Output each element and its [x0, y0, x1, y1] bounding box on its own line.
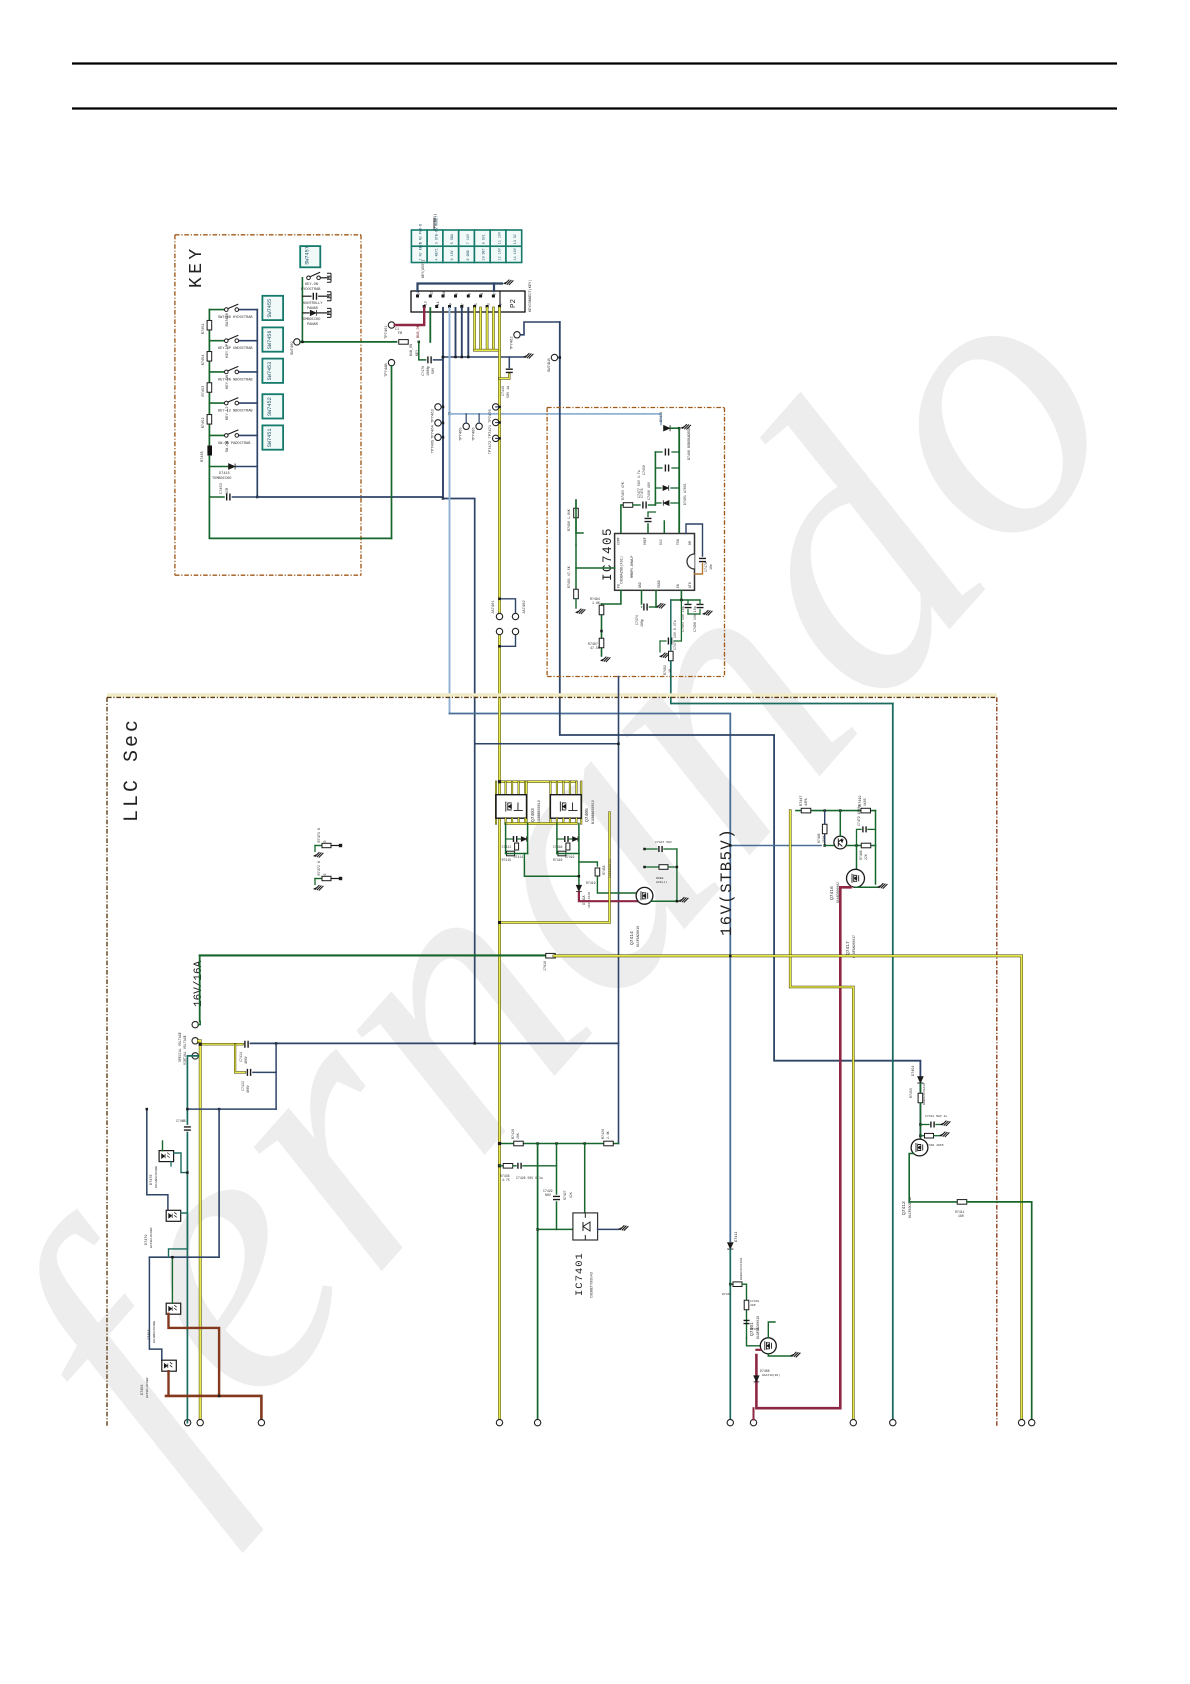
- svg-text:VCC: VCC: [659, 539, 663, 545]
- svg-text:R7446: R7446: [817, 833, 821, 843]
- svg-text:NHV: NHV: [545, 1193, 551, 1197]
- svg-text:0: 0: [323, 841, 327, 843]
- wire switch row 4 left: [209, 402, 224, 404]
- svg-text:BCTBCLDCOBR: BCTBCLDCOBR: [145, 1377, 149, 1398]
- capacitor C7448: [565, 836, 568, 842]
- svg-text:Q7403: Q7403: [530, 808, 536, 822]
- wire yellow gate bus Q7403/Q7405: [500, 781, 577, 783]
- resistor R7484 1.8K: [599, 605, 604, 615]
- resistor R7467 820: [659, 865, 668, 870]
- wire yellow bottom bus: [506, 822, 577, 824]
- svg-text:R7481 47.5K: R7481 47.5K: [567, 566, 571, 588]
- wire green branch R7436: [499, 1165, 501, 1167]
- svg-text:1 NC PWR-D: 1 NC PWR-D: [420, 224, 424, 244]
- capacitor C7476 1000p: [428, 356, 431, 363]
- resistor R7466 100: [918, 1093, 923, 1103]
- capacitor C7441 NHV 1u: [931, 1122, 934, 1128]
- capacitor C7424 400V: [245, 1041, 248, 1048]
- terminal TP7462: [514, 332, 520, 338]
- wire navy T from KEY net: [475, 743, 619, 745]
- svg-text:D7481 A7061: D7481 A7061: [683, 483, 687, 505]
- svg-text:R7448: R7448: [859, 850, 863, 860]
- svg-text:11 16V: 11 16V: [498, 231, 502, 244]
- wire diode row right: [236, 466, 257, 468]
- svg-text:40P: 40P: [750, 1303, 756, 1307]
- wire yellow FET bottom x=518.6: [518, 818, 520, 823]
- wire yellow bus: [475, 349, 500, 352]
- wire teal opto1 loop: [170, 1162, 172, 1167]
- svg-text:8: 8: [455, 293, 459, 295]
- svg-text:C7468 48V: C7468 48V: [647, 482, 651, 500]
- wire navy below rail to opto4: [149, 1257, 161, 1360]
- svg-text:2 NC KEY0: 2 NC KEY0: [420, 242, 424, 260]
- terminal JA7402 b: [512, 628, 518, 634]
- svg-text:B0BCC9C9C9CA: B0BCC9C9C9CA: [739, 1258, 743, 1280]
- svg-text:5: 5: [474, 303, 478, 305]
- wire green EN pin stub: [680, 590, 682, 600]
- snubber cluster C7448: [556, 824, 558, 854]
- capacitor C7431 NHV: [744, 1320, 750, 1323]
- svg-text:PANAR: PANAR: [307, 307, 319, 311]
- wire navy opto rail: [149, 1256, 219, 1258]
- terminal TB7462: [192, 1038, 198, 1044]
- svg-text:180: 180: [958, 1214, 964, 1218]
- resistor R7454: [207, 352, 212, 362]
- capacitor C7453 SCR 0.1u: [227, 494, 230, 501]
- svg-text:10 DET: 10 DET: [483, 248, 487, 260]
- svg-text:JA7402: JA7402: [523, 600, 527, 614]
- ground at P2 shield: [504, 280, 514, 285]
- wire yellow FET bottom x=556.9: [556, 818, 558, 823]
- wire green C7441 branch: [920, 1124, 929, 1126]
- svg-text:1.8K: 1.8K: [592, 601, 600, 605]
- svg-text:R7419: R7419: [586, 881, 596, 885]
- wire navy R7446 branch: [824, 811, 826, 846]
- svg-text:R7482: R7482: [663, 665, 667, 675]
- wire green 16V rail corner down: [199, 955, 201, 1021]
- switch box SW7451: [262, 425, 283, 449]
- wire navy TCN loop: [686, 524, 703, 556]
- resistor mid R7415: [515, 843, 519, 850]
- wire green sense rail: [500, 1143, 619, 1145]
- photocoupler D7407: [166, 1303, 181, 1314]
- wire green Q7417 drain bottom: [856, 886, 879, 888]
- wire brown opto3 out: [169, 1314, 220, 1396]
- wire cap row KONTROLLY: [302, 295, 311, 297]
- terminal olive bottom: [850, 1419, 856, 1425]
- svg-text:6: 6: [468, 293, 472, 295]
- svg-text:Q7412: Q7412: [901, 1201, 907, 1215]
- wire yellow step to C7422: [235, 1044, 245, 1072]
- wire green R7463 branch: [730, 1283, 732, 1285]
- wire yellow P2 pin drop x=487.1: [486, 308, 489, 350]
- wire yellow main vertical (KEY line): [498, 308, 501, 617]
- svg-text:13: 13: [423, 301, 427, 305]
- wire green pin COMP bottom loop: [576, 518, 583, 533]
- svg-text:R7466: R7466: [909, 1088, 913, 1098]
- capacitor C7429 NHV 0.22u: [553, 1196, 560, 1199]
- wire green SGND stub: [655, 590, 657, 607]
- svg-text:R7415: R7415: [502, 858, 512, 862]
- svg-text:5 SDA: 5 SDA: [451, 233, 455, 244]
- wire navy TP7462 hook: [520, 322, 560, 335]
- resistor FB7401 (jumper): [399, 340, 409, 345]
- diode D7408 0AA719(90): [754, 1376, 760, 1382]
- svg-text:D7454: D7454: [912, 1065, 916, 1076]
- svg-text:TP7465: TP7465: [460, 427, 464, 441]
- svg-text:C7426 50V 0.1u: C7426 50V 0.1u: [516, 1176, 543, 1180]
- wire navy KEY net to LLC corner: [443, 499, 475, 1043]
- transistor Q7414: [636, 887, 653, 904]
- svg-text:TP74AB: TP74AB: [385, 363, 389, 377]
- svg-text:KEY: KEY: [187, 245, 207, 288]
- wire cap row to navy bus: [233, 496, 258, 498]
- ground R7465: [940, 1132, 950, 1137]
- connector comb 3: [327, 308, 331, 317]
- terminal TP7465: [435, 434, 441, 440]
- svg-text:TOMBOCCKO: TOMBOCCKO: [301, 318, 320, 322]
- wire navy long P2 pin11 drop to KEY net: [442, 308, 444, 499]
- terminal TP7464: [435, 420, 441, 426]
- svg-text:16V(STB5V): 16V(STB5V): [718, 828, 736, 936]
- LLC Sec section dashed box: [107, 696, 997, 698]
- svg-text:SW7460 HYDOCTRAB: SW7460 HYDOCTRAB: [218, 316, 253, 320]
- terminal brown bottom: [258, 1419, 264, 1425]
- svg-text:B1GFBAD00019: B1GFBAD00019: [756, 1316, 760, 1339]
- svg-text:C0DBAZ8D(X91): C0DBAZ8D(X91): [620, 556, 625, 584]
- svg-text:VIRTUAL VOLTAGE: VIRTUAL VOLTAGE: [183, 1035, 187, 1065]
- svg-text:J7616: J7616: [544, 961, 548, 971]
- wire green opto1 top stub: [162, 1141, 164, 1151]
- wire snubber bottom: [506, 853, 528, 855]
- wire green key main output: [300, 341, 396, 343]
- capacitor C7479 1000p 50V: [863, 826, 866, 832]
- diode D7415 TOMBOCCKO: [229, 463, 235, 469]
- wire teal long to right: [671, 661, 893, 704]
- wire yellow drop to FET pin x=569.9: [569, 782, 571, 795]
- svg-text:400V: 400V: [246, 1085, 250, 1093]
- wire navy shield stub: [493, 284, 495, 292]
- svg-text:C7441 NHV 1u: C7441 NHV 1u: [925, 1114, 947, 1118]
- svg-text:2.4K: 2.4K: [606, 1131, 610, 1139]
- switch KEY-ON HYDOCTRAB: [307, 272, 321, 279]
- resistor R7464 40K5: [744, 1300, 749, 1310]
- wire green cluster2 drop: [578, 854, 580, 885]
- svg-text:22K: 22K: [864, 854, 868, 860]
- svg-text:BCTBCLDCOBR: BCTBCLDCOBR: [149, 1227, 153, 1248]
- terminal yellow 16V bottom: [1018, 1419, 1024, 1425]
- pin table leader tick: [433, 218, 435, 230]
- svg-text:KEY-ON: KEY-ON: [305, 283, 318, 287]
- svg-text:820(J): 820(J): [656, 880, 667, 884]
- resistor R7447 4K7: [801, 808, 811, 813]
- svg-text:D7414: D7414: [514, 855, 524, 859]
- svg-text:Q7416: Q7416: [829, 886, 835, 900]
- svg-text:C7421: C7421: [502, 845, 512, 849]
- wire switch row 1 right: [239, 309, 258, 311]
- svg-text:C7479 1000p: C7479 1000p: [857, 805, 861, 826]
- wire green into TB7461: [198, 1021, 200, 1024]
- wire switch to comb: [320, 277, 329, 279]
- wire yellow drop to FET pin x=512.1: [511, 782, 513, 795]
- svg-text:D7411: D7411: [735, 1231, 739, 1242]
- svg-text:SW7457: SW7457: [305, 246, 311, 265]
- svg-text:C7469: C7469: [642, 465, 646, 475]
- svg-text:44PA: 44PA: [804, 798, 808, 806]
- wire brown opto4 out: [167, 1371, 169, 1396]
- wire yellow P2 pin drop x=480.6: [479, 308, 482, 350]
- wire maroon TP7461 to P2 pin13: [395, 308, 424, 325]
- wire cap row left: [209, 496, 224, 498]
- svg-text:R7453: R7453: [202, 386, 206, 397]
- svg-text:KEY-L2 NBOOCTRAB: KEY-L2 NBOOCTRAB: [218, 410, 253, 414]
- wire yellow drop to FET pin x=563.4: [562, 782, 564, 795]
- wire green Q7414 source to ground: [651, 900, 679, 902]
- svg-text:SW7455: SW7455: [267, 299, 273, 318]
- wire yellow drop to FET pin x=556.9: [556, 782, 558, 795]
- svg-text:Q7405: Q7405: [584, 808, 590, 822]
- wire navy KEY to P2 net: [257, 497, 443, 499]
- svg-text:28K: 28K: [516, 1133, 520, 1139]
- KEY section dashed box: [175, 234, 361, 236]
- capacitor C7470 10n: [699, 558, 706, 561]
- capacitor C7447 50V: [659, 846, 662, 852]
- wire green opto3 feed: [171, 1257, 173, 1303]
- wire maroon into Q7414: [579, 893, 638, 902]
- wire green Q7416 collector: [839, 811, 841, 837]
- wire teal TB7463 down: [187, 1056, 198, 1124]
- svg-text:IC7401: IC7401: [574, 1252, 586, 1296]
- wire switch row 2 left: [209, 340, 224, 342]
- wire yellow FET bottom x=505.6: [505, 818, 507, 823]
- svg-text:SW7456: SW7456: [267, 331, 273, 350]
- wire lightblue long down to LLC: [449, 414, 451, 714]
- wire yellow drop to FET pin x=518.6: [518, 782, 520, 795]
- svg-text:R7465: R7465: [201, 451, 205, 462]
- svg-text:6 16V: 6 16V: [451, 249, 455, 260]
- svg-text:4.75: 4.75: [502, 1178, 510, 1182]
- snubber cluster C7421: [505, 824, 507, 854]
- wire green R7481 chain: [575, 568, 577, 590]
- switch KEY-UP: [225, 335, 239, 342]
- svg-text:R7452: R7452: [202, 418, 206, 429]
- resistor R7453: [207, 383, 212, 393]
- diode D7411 B0BCC9C9C9CA: [727, 1243, 733, 1249]
- page header rule 2: [72, 107, 1117, 109]
- wire navy P2 pin drop x=455.5: [455, 308, 457, 357]
- svg-text:BM: BM: [688, 541, 692, 545]
- wire teal opto2 loop: [169, 1213, 188, 1257]
- transistor Q7412: [911, 1139, 928, 1156]
- terminal TP7472: [493, 435, 499, 441]
- svg-text:PANAR: PANAR: [307, 323, 319, 327]
- svg-text:0AA719(90): 0AA719(90): [762, 1373, 780, 1377]
- svg-text:R7471 K: R7471 K: [318, 827, 322, 843]
- svg-text:BUB_ON: BUB_ON: [410, 344, 414, 356]
- svg-text:D7415: D7415: [219, 472, 230, 476]
- diode D7414: [521, 836, 526, 841]
- terminal JA7402 a: [512, 613, 518, 619]
- svg-text:14 16V: 14 16V: [514, 247, 518, 260]
- svg-text:100p: 100p: [640, 619, 644, 627]
- svg-text:A38J2G20(X): A38J2G20(X): [608, 858, 612, 878]
- resistor mid R7416: [566, 843, 570, 850]
- terminal TP7461: [388, 322, 394, 328]
- resistor R7488 1.84K: [574, 508, 579, 518]
- switch box SW7456: [262, 327, 283, 351]
- svg-text:C0DBETY00543: C0DBETY00543: [591, 1272, 595, 1298]
- wire green to R7487: [601, 631, 603, 656]
- capacitor C7435 NHV: [184, 1127, 191, 1130]
- resistor R7448 22K: [861, 843, 871, 848]
- wire yellow drop to FET pin x=525.2: [524, 782, 526, 795]
- wire green Q7401 source to ground: [768, 1354, 791, 1356]
- wire switch row 2 right: [239, 340, 258, 342]
- wire jumper side loop: [500, 599, 516, 613]
- terminal TP7460: [388, 359, 394, 365]
- wire green 16V rail: [200, 954, 547, 956]
- svg-text:SGND: SGND: [657, 580, 661, 588]
- diode D7455 38JTL61O2: [576, 885, 582, 891]
- svg-text:R7427: R7427: [563, 1190, 567, 1200]
- svg-text:C7488 16V 10u: C7488 16V 10u: [693, 606, 697, 632]
- capacitor C7478 50V: [645, 518, 652, 521]
- ground Q7417: [878, 883, 888, 888]
- terminal TP7466: [476, 423, 482, 429]
- wire snubber bottom: [557, 853, 579, 855]
- wire teal left long down: [186, 1133, 188, 1423]
- svg-text:4: 4: [480, 293, 484, 295]
- svg-text:1000p: 1000p: [427, 366, 431, 376]
- wire maroon Q7401 connection: [756, 1349, 760, 1351]
- wire green Q7401 gate chain down: [729, 1250, 731, 1423]
- wire yellow ring Q7403 left: [495, 782, 497, 824]
- svg-text:P2(KEY): P2(KEY): [433, 214, 438, 228]
- wire green EN rail: [671, 599, 700, 601]
- svg-text:TON: TON: [676, 539, 680, 545]
- svg-text:R7416: R7416: [553, 858, 563, 862]
- transistor Q7417: [847, 869, 865, 887]
- resistor R7446 100K: [822, 824, 827, 834]
- wire navy cap to rail: [434, 357, 443, 360]
- switch SW7460: [225, 304, 239, 311]
- svg-text:R7454: R7454: [202, 355, 206, 366]
- wire teal IC7405 output: [670, 600, 672, 650]
- svg-text:9 SCL: 9 SCL: [483, 234, 487, 244]
- resistor R7416: [558, 851, 566, 856]
- svg-text:7: 7: [461, 303, 465, 305]
- svg-text:50V: 50V: [432, 367, 436, 374]
- switch SW-ON: [225, 430, 239, 437]
- terminal green mid bottom: [534, 1419, 540, 1425]
- connector comb 1: [327, 273, 331, 282]
- svg-text:B1DBBBD00019: B1DBBBD00019: [537, 800, 541, 824]
- ground at rail end: [524, 353, 534, 358]
- svg-text:KEY-DN NBOOCTRAB: KEY-DN NBOOCTRAB: [218, 378, 253, 382]
- wire yellow FET bottom x=525.2: [524, 818, 526, 823]
- svg-text:D7488 BOBOBADEDA: D7488 BOBOBADEDA: [688, 426, 692, 460]
- wire green divider down to circle: [537, 1144, 539, 1423]
- ground IC7401: [619, 1225, 629, 1230]
- resistor R7457: [595, 868, 600, 876]
- page header rule 1: [72, 62, 1117, 64]
- diode D7477: [663, 500, 669, 505]
- wire green ref drop: [584, 1144, 586, 1213]
- svg-text:11: 11: [436, 301, 440, 305]
- svg-text:C74NB: C74NB: [176, 1119, 186, 1123]
- wire navy IC7405 bottom feedback: [618, 677, 620, 1144]
- svg-text:HYDOCTRAB: HYDOCTRAB: [301, 288, 321, 292]
- svg-text:9: 9: [449, 303, 453, 305]
- switch box SW7455: [262, 296, 283, 320]
- wire navy P2 pin drop x=468.3: [467, 308, 469, 357]
- resistor R7465 40K5: [925, 1133, 934, 1138]
- svg-text:Q7417: Q7417: [845, 941, 851, 955]
- svg-text:400V: 400V: [244, 1056, 248, 1064]
- wire switch row 1 left: [209, 309, 224, 311]
- svg-text:FB: FB: [617, 584, 621, 588]
- wire green stub to cap C7476: [419, 342, 426, 360]
- wire lightblue base feed: [730, 845, 821, 847]
- svg-text:BUB_ON: BUB_ON: [417, 325, 421, 338]
- ground R7481: [576, 609, 586, 614]
- svg-text:SW7451: SW7451: [267, 429, 273, 448]
- ground Q7401: [791, 1352, 801, 1357]
- capacitor C7481: [685, 604, 692, 607]
- wire green sw7457 branch vertical: [301, 278, 303, 342]
- svg-text:P2: P2: [510, 299, 518, 308]
- diode D7454 B0BCC9C9G1CM: [917, 1077, 923, 1083]
- IC7405 section dashed box: [547, 407, 724, 409]
- ground caps: [703, 610, 713, 615]
- svg-text:R7483 47K: R7483 47K: [621, 482, 625, 500]
- wire maroon terminal stub: [753, 1408, 755, 1419]
- wire green comp to IC left: [576, 545, 615, 568]
- wire green drain RC loop: [645, 848, 658, 850]
- wire green ladder left vertical: [654, 452, 656, 505]
- wire lightblue to IC7405: [450, 414, 662, 425]
- svg-text:Q7401: Q7401: [749, 1322, 755, 1336]
- wire olive step down: [790, 811, 853, 1423]
- switch box SW7453: [262, 359, 283, 383]
- wire green TP7460 down to KEY return: [391, 366, 393, 539]
- terminal JA7401 b: [496, 628, 502, 634]
- svg-text:SW-ON PADOCTRAB: SW-ON PADOCTRAB: [218, 442, 251, 446]
- svg-text:C7448: C7448: [553, 845, 563, 849]
- svg-text:2: 2: [493, 293, 497, 295]
- transistor Q7405: [550, 795, 581, 819]
- svg-text:D7473: D7473: [660, 412, 664, 422]
- capacitor C7484: [697, 604, 704, 607]
- switch box SW7457: [300, 246, 320, 267]
- svg-text:C7447 50V: C7447 50V: [655, 840, 672, 844]
- svg-text:SW7453: SW7453: [267, 362, 273, 381]
- svg-text:C7476: C7476: [422, 366, 426, 376]
- wire green C7479 loop: [857, 829, 862, 845]
- wire green ladder rung stubs: [655, 451, 662, 453]
- svg-text:TP7465: TP7465: [432, 439, 436, 453]
- svg-text:TP7463: TP7463: [432, 409, 436, 423]
- wire maroon Q7417 source long run: [756, 887, 850, 1408]
- svg-text:TP7461: TP7461: [385, 325, 389, 339]
- wire yellow ring Q7405 left: [549, 782, 551, 824]
- svg-text:TOMBOCCKO: TOMBOCCKO: [212, 477, 231, 481]
- connector comb 2: [327, 292, 331, 301]
- wire yellow P2 pin drop x=474.6: [473, 308, 476, 350]
- photocoupler D7406: [162, 1360, 177, 1371]
- wire green Q7412 source out: [909, 1154, 913, 1202]
- svg-text:R7458: R7458: [602, 865, 606, 875]
